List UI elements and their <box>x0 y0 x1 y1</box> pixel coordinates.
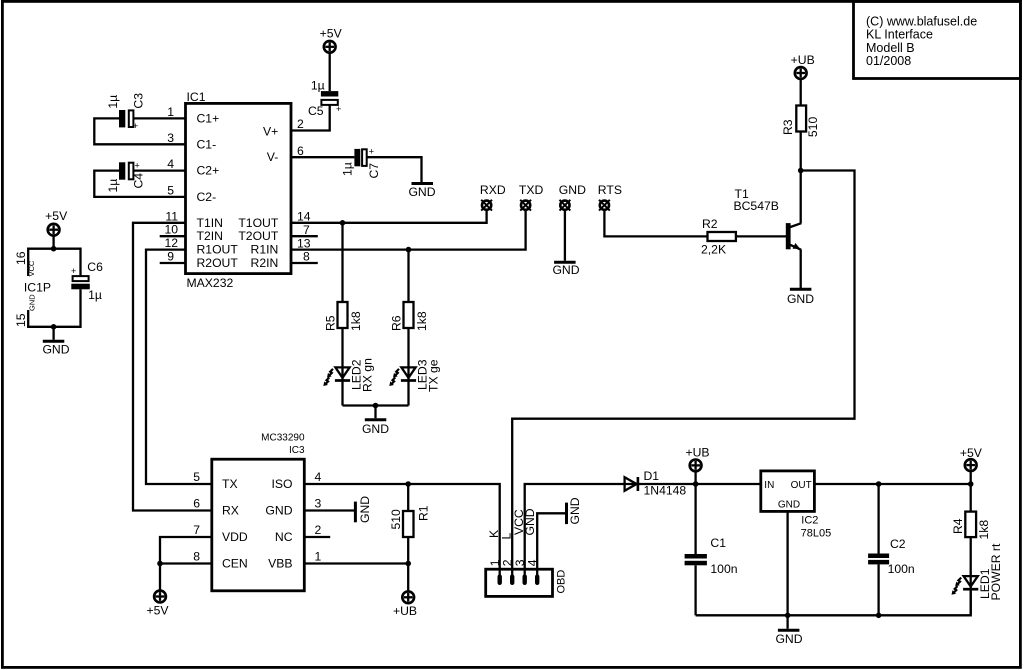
svg-text:R1IN: R1IN <box>251 243 279 257</box>
svg-text:GND: GND <box>265 504 292 518</box>
svg-text:V-: V- <box>267 150 279 164</box>
op-amp IC1 MAX232 body <box>186 90 292 290</box>
capacitor C2 <box>868 537 915 576</box>
svg-text:R6: R6 <box>390 315 404 331</box>
svg-text:R2OUT: R2OUT <box>197 256 239 270</box>
svg-text:GND: GND <box>775 632 802 646</box>
svg-text:V+: V+ <box>263 125 278 139</box>
svg-text:1: 1 <box>167 105 174 119</box>
svg-text:6: 6 <box>297 144 304 158</box>
power +UB below R1 <box>393 591 417 618</box>
svg-text:12: 12 <box>164 236 178 250</box>
svg-text:GND: GND <box>358 496 372 523</box>
svg-text:3: 3 <box>167 131 174 145</box>
wire OBD VCC to D1 <box>525 484 761 576</box>
svg-text:1µ: 1µ <box>88 288 102 302</box>
node RTS pad <box>598 183 622 211</box>
node junction C2 top <box>876 481 882 487</box>
svg-text:D1: D1 <box>644 469 660 483</box>
svg-text:4: 4 <box>315 470 322 484</box>
svg-text:IC2: IC2 <box>801 515 818 527</box>
svg-text:T2OUT: T2OUT <box>238 229 279 243</box>
node junction R5 tap <box>340 220 346 226</box>
svg-text:5: 5 <box>193 470 200 484</box>
wire R4 to LED1 <box>970 537 972 615</box>
wire VDD net <box>160 537 212 591</box>
ground below IC2 <box>775 630 802 646</box>
wire LED rail to GND <box>374 406 376 419</box>
capacitor C7 <box>341 147 382 179</box>
svg-text:3: 3 <box>315 497 322 511</box>
power +UB above R3 <box>791 53 815 79</box>
svg-text:C2: C2 <box>890 537 906 551</box>
node junction R4 top <box>968 481 974 487</box>
node junction IC1P bottom <box>51 324 57 330</box>
svg-text:01/2008: 01/2008 <box>866 54 911 68</box>
node GND pad <box>559 183 586 211</box>
svg-text:1k8: 1k8 <box>415 311 429 331</box>
wire CEN <box>160 562 212 564</box>
LED LED1 POWER rt <box>952 543 1003 600</box>
resistor R4 <box>951 512 991 540</box>
wire IC2 OUT line <box>814 483 970 485</box>
svg-text:100n: 100n <box>888 562 915 576</box>
wire IC1P to GND <box>52 327 54 340</box>
ground below C7 <box>408 184 435 200</box>
wire R2 to T1 base <box>736 235 787 237</box>
wire R1 top <box>407 484 409 511</box>
svg-text:VBB: VBB <box>268 557 292 571</box>
wire R3 to collector node <box>800 132 802 171</box>
svg-text:GND: GND <box>552 263 579 277</box>
svg-text:100n: 100n <box>710 562 737 576</box>
svg-text:TXD: TXD <box>519 183 544 197</box>
wire R6 top <box>407 250 409 302</box>
svg-text:+5V: +5V <box>960 446 983 460</box>
svg-text:1µ: 1µ <box>106 95 120 109</box>
svg-text:C7: C7 <box>367 163 381 179</box>
svg-text:BC547B: BC547B <box>734 199 779 213</box>
wire R2IN stub <box>291 262 318 264</box>
transistor T1 BC547B <box>734 187 802 250</box>
wire C5 to IC1 pin 2 <box>291 105 330 131</box>
svg-text:R1OUT: R1OUT <box>197 243 239 257</box>
LED LED2 RX gn <box>323 358 374 392</box>
svg-text:VCC: VCC <box>27 260 36 276</box>
svg-text:NC: NC <box>275 530 293 544</box>
svg-text:9: 9 <box>167 250 174 264</box>
wire C2 top <box>877 484 879 554</box>
svg-text:GND: GND <box>28 294 37 311</box>
node junction IC2 GND rail <box>785 613 791 619</box>
svg-text:510: 510 <box>806 117 820 138</box>
wire VBB to +UB <box>407 564 409 592</box>
resistor R5 <box>324 302 363 331</box>
svg-text:CEN: CEN <box>222 557 248 571</box>
svg-text:R2: R2 <box>702 217 718 231</box>
svg-text:GND: GND <box>778 499 800 510</box>
svg-text:1k8: 1k8 <box>977 520 991 540</box>
title text <box>866 15 977 68</box>
wire R6 to LED3 <box>407 328 409 406</box>
IC3 pin numbers <box>193 470 321 564</box>
svg-text:(C) www.blafusel.de: (C) www.blafusel.de <box>866 15 977 29</box>
wire T2IN stub <box>160 235 186 237</box>
node junction IC1P top <box>51 246 57 252</box>
svg-text:1µ: 1µ <box>341 162 355 176</box>
svg-text:R4: R4 <box>951 518 965 534</box>
svg-text:1N4148: 1N4148 <box>644 484 687 498</box>
svg-text:6: 6 <box>193 497 200 511</box>
node junction +UB C1 <box>693 481 699 487</box>
svg-text:+UB: +UB <box>791 53 815 67</box>
wire collector to OBD L pin <box>512 171 854 577</box>
op-amp IC1P power part <box>14 251 51 327</box>
wire IC1P bottom rail <box>28 289 80 327</box>
node collector junction <box>798 168 804 174</box>
svg-text:GND: GND <box>362 422 389 436</box>
node junction C2 rail <box>876 613 882 619</box>
svg-text:GND: GND <box>568 497 582 524</box>
svg-text:+UB: +UB <box>685 445 709 459</box>
resistor R2 <box>701 217 736 257</box>
ground below T1 <box>787 289 814 306</box>
svg-text:POWER rt: POWER rt <box>989 543 1003 600</box>
wire C4 to IC1 pin 5 <box>94 171 185 197</box>
svg-text:1k8: 1k8 <box>349 311 363 331</box>
resistor R3 <box>781 106 820 138</box>
diode D1 1N4148 <box>625 469 687 498</box>
svg-text:C1-: C1- <box>197 137 217 151</box>
wire R5 top <box>341 223 343 302</box>
wire R1IN line to TXD <box>291 210 526 249</box>
wire +UB to R3 <box>800 79 802 106</box>
svg-text:IN: IN <box>764 480 774 491</box>
svg-text:78L05: 78L05 <box>801 527 832 539</box>
svg-text:11: 11 <box>165 209 178 223</box>
svg-text:8: 8 <box>193 550 200 564</box>
wire NC stub <box>304 536 330 538</box>
power +5V above IC1P <box>45 209 68 236</box>
capacitor C5 <box>308 79 341 119</box>
svg-text:16: 16 <box>14 251 28 265</box>
node TXD pad <box>519 183 544 211</box>
power +5V below IC3 <box>146 591 169 618</box>
wire T1 collector up <box>800 171 802 224</box>
svg-text:R2IN: R2IN <box>251 256 279 270</box>
svg-text:R5: R5 <box>324 315 338 331</box>
svg-text:TX ge: TX ge <box>427 359 441 392</box>
wire T2OUT stub <box>291 235 318 237</box>
svg-text:C2+: C2+ <box>197 164 220 178</box>
wire C1 top <box>694 484 696 554</box>
svg-text:2: 2 <box>297 117 304 131</box>
power +5V above C5 <box>320 27 343 53</box>
svg-text:1µ: 1µ <box>106 179 120 193</box>
wire T1OUT line to RXD <box>291 210 487 222</box>
wire C4 to IC1 pin 4 <box>134 169 186 171</box>
wire +5V to IC1P top rail <box>52 236 54 249</box>
svg-text:+: + <box>369 147 374 157</box>
wire RTS to R2 <box>604 210 707 236</box>
node junction LED rail <box>373 403 379 409</box>
svg-text:14: 14 <box>297 210 311 224</box>
ground below IC1P <box>42 341 69 356</box>
wire +5V to C5 <box>329 53 331 91</box>
wire IC3 GND pin <box>304 509 354 511</box>
wire R2OUT stub <box>160 262 186 264</box>
svg-text:OUT: OUT <box>791 480 812 491</box>
svg-text:GND: GND <box>559 183 586 197</box>
svg-text:RX gn: RX gn <box>361 358 375 392</box>
svg-text:RTS: RTS <box>598 183 622 197</box>
svg-text:13: 13 <box>297 236 311 250</box>
svg-text:IC1P: IC1P <box>24 280 51 294</box>
svg-text:1: 1 <box>315 550 322 564</box>
svg-text:R1: R1 <box>416 505 430 521</box>
svg-text:+: + <box>71 266 76 276</box>
svg-text:ISO: ISO <box>272 477 293 491</box>
wire LED bottom rail <box>343 404 409 406</box>
svg-text:10: 10 <box>164 223 178 237</box>
svg-text:4: 4 <box>167 157 174 171</box>
wire +UB drop <box>694 471 696 484</box>
svg-text:RXD: RXD <box>480 183 506 197</box>
svg-text:C3: C3 <box>132 93 146 109</box>
svg-text:Modell B: Modell B <box>866 41 915 55</box>
svg-text:C4: C4 <box>132 173 146 189</box>
wire C7 to GND <box>367 157 422 182</box>
power +5V right <box>960 446 983 471</box>
svg-text:GND: GND <box>42 342 69 356</box>
svg-text:+5V: +5V <box>45 209 68 223</box>
title box <box>854 1 1021 78</box>
ground below GND pad <box>552 262 579 277</box>
svg-text:15: 15 <box>14 313 28 327</box>
ground right of IC3 pin 3 <box>355 496 371 523</box>
svg-text:510: 510 <box>389 509 403 530</box>
svg-text:+5V: +5V <box>146 604 169 618</box>
op-amp IC3 MC33290 body <box>212 432 305 590</box>
svg-text:8: 8 <box>303 250 310 264</box>
wire ISO to OBD K pin <box>304 484 499 576</box>
svg-text:2,2K: 2,2K <box>701 243 726 257</box>
svg-text:5: 5 <box>167 183 174 197</box>
ground right of OBD <box>567 497 582 524</box>
capacitor C1 <box>685 536 738 576</box>
svg-text:+UB: +UB <box>393 604 417 618</box>
svg-text:T1IN: T1IN <box>197 216 223 230</box>
wire OBD GND pin <box>537 513 565 576</box>
resistor R6 <box>390 302 429 331</box>
node junction VDD-CEN <box>157 561 163 567</box>
wire R4 top <box>970 484 972 512</box>
wire R1 bottom <box>407 537 409 564</box>
wire IC2 GND down <box>786 511 788 628</box>
svg-text:C1+: C1+ <box>197 111 220 125</box>
node junction R1 top <box>405 481 411 487</box>
node RXD pad <box>480 183 506 211</box>
capacitor C4 <box>106 161 146 193</box>
svg-text:+: + <box>336 104 341 114</box>
ground below LEDs <box>362 420 389 436</box>
svg-text:C5: C5 <box>308 104 324 118</box>
wire C1 bottom <box>694 565 696 615</box>
svg-text:C2-: C2- <box>197 190 217 204</box>
capacitor C3 <box>106 93 146 131</box>
svg-text:IC1: IC1 <box>187 90 206 104</box>
resistor R1 <box>389 505 431 537</box>
wire IC1 pin 11 to IC3 RX <box>133 223 212 511</box>
svg-text:+5V: +5V <box>320 27 343 41</box>
wire IC1P top rail <box>28 249 80 276</box>
svg-text:C1: C1 <box>710 536 726 550</box>
svg-text:R3: R3 <box>781 119 795 135</box>
node junction R6 tap <box>406 247 412 253</box>
svg-text:T2IN: T2IN <box>197 229 223 243</box>
svg-text:7: 7 <box>303 223 310 237</box>
wire C3 to IC1 pin 3 <box>94 118 185 144</box>
svg-text:KL Interface: KL Interface <box>866 28 933 42</box>
wire VBB <box>304 562 408 564</box>
wire IC1 pin 12 to IC3 TX <box>146 250 212 484</box>
svg-text:GND: GND <box>787 292 814 306</box>
svg-text:MAX232: MAX232 <box>187 276 234 290</box>
svg-text:TX: TX <box>222 477 238 491</box>
wire IC1 pin 6 to C7 <box>291 156 354 158</box>
wire C2 bottom <box>877 564 879 615</box>
wire bottom rail <box>696 590 971 616</box>
wire GND pad drop <box>564 210 566 260</box>
wire C3 to IC1 pin 1 <box>134 117 186 119</box>
IC1 pin numbers <box>164 105 310 264</box>
capacitor C6 <box>71 260 103 302</box>
svg-text:VDD: VDD <box>222 530 248 544</box>
node junction VBB-R1 <box>405 561 411 567</box>
svg-text:+: + <box>135 161 140 171</box>
LED LED3 TX ge <box>389 359 440 392</box>
OBD pin numbers <box>488 559 540 566</box>
svg-text:+: + <box>133 121 138 131</box>
svg-text:OBD: OBD <box>556 570 568 594</box>
svg-text:GND: GND <box>408 185 435 199</box>
svg-text:T1OUT: T1OUT <box>238 216 279 230</box>
wire R5 to LED2 <box>341 328 343 406</box>
op-amp IC2 78L05 body <box>761 471 831 539</box>
svg-text:7: 7 <box>193 523 200 537</box>
svg-text:RX: RX <box>222 504 239 518</box>
svg-text:2: 2 <box>315 523 322 537</box>
svg-text:IC3: IC3 <box>289 445 305 456</box>
wire +5V drop <box>970 471 972 484</box>
svg-text:C6: C6 <box>87 260 103 274</box>
power +UB above D1 node <box>685 445 709 471</box>
svg-text:MC33290: MC33290 <box>261 432 305 443</box>
wire T1 emitter down <box>800 250 802 288</box>
svg-text:1µ: 1µ <box>311 79 325 93</box>
connector OBD <box>486 569 568 596</box>
